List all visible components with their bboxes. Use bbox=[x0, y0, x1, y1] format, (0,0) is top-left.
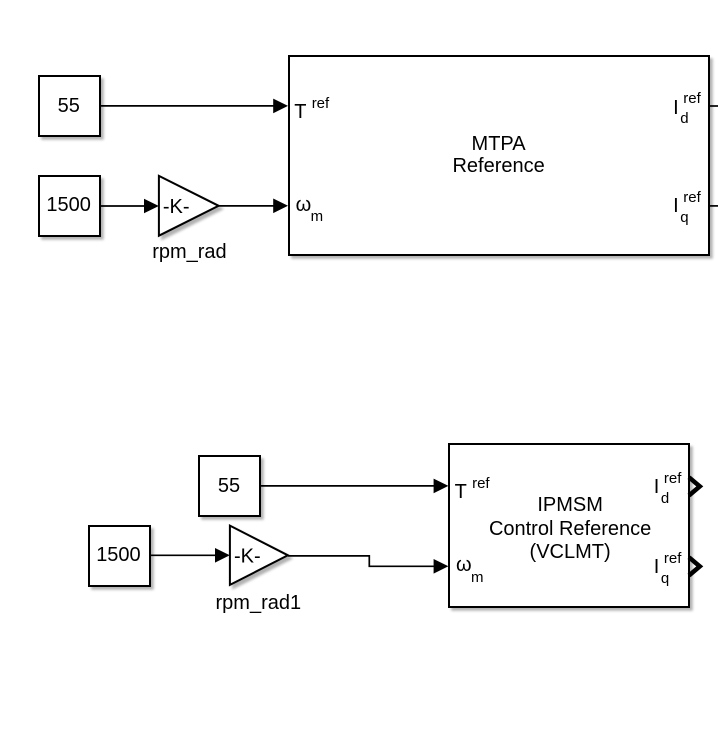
output port chevron Id ref bbox=[689, 477, 700, 495]
block name label MTPA Reference bbox=[399, 133, 599, 178]
gain label rpm_rad1 bbox=[216, 593, 302, 613]
wire 55 to MTPA T ref bbox=[101, 105, 275, 107]
port label superscript ref bbox=[472, 476, 490, 491]
value label 1500 bbox=[46, 195, 91, 215]
gain label rpm_rad bbox=[152, 242, 226, 262]
port label superscript ref bbox=[664, 471, 682, 486]
gain block rpm_rad1 (triangle) bbox=[230, 526, 288, 585]
subsystem block MTPA Reference bbox=[288, 55, 710, 256]
value label 1500 bbox=[96, 545, 141, 565]
gain block rpm_rad (triangle) bbox=[159, 176, 219, 236]
wire MTPA Iq ref output bbox=[710, 205, 718, 207]
wire MTPA Id ref output bbox=[710, 105, 718, 107]
port label subscript m bbox=[471, 570, 484, 585]
constant block Constant3 (1500, lower) bbox=[88, 525, 151, 587]
svg-text:-K-: -K- bbox=[163, 196, 190, 218]
wire 55 to IPMSM T ref bbox=[261, 485, 435, 487]
port label T bbox=[294, 102, 306, 122]
constant block Constant (55) bbox=[38, 75, 101, 137]
arrowhead at IPMSM T ref input bbox=[434, 479, 449, 494]
constant block Constant2 (55, lower) bbox=[198, 455, 261, 517]
arrowhead at gain rpm_rad input bbox=[144, 199, 159, 214]
port label superscript ref bbox=[664, 551, 682, 566]
arrowhead at MTPA omega input bbox=[273, 199, 288, 214]
block name label IPMSM Control Reference (VCLMT) bbox=[450, 494, 690, 564]
port label subscript d bbox=[680, 111, 688, 126]
svg-text:-K-: -K- bbox=[234, 546, 261, 568]
port label superscript ref bbox=[312, 96, 330, 111]
port label subscript q bbox=[661, 571, 669, 586]
port label I (Id ref) bbox=[654, 477, 660, 497]
port label I (Id ref) bbox=[673, 98, 679, 118]
arrowhead at MTPA T ref input bbox=[273, 99, 288, 114]
port label omega bbox=[456, 555, 472, 575]
port label superscript ref bbox=[683, 91, 701, 106]
value label 55 bbox=[58, 96, 80, 116]
port label I (Iq ref) bbox=[673, 196, 679, 216]
wire 1500 to gain rpm_rad bbox=[101, 205, 147, 207]
port label subscript q bbox=[680, 210, 688, 225]
constant block Constant1 (1500) bbox=[38, 175, 101, 237]
wire gain rpm_rad to MTPA omega input bbox=[219, 205, 275, 207]
port label superscript ref bbox=[683, 190, 701, 205]
subsystem block IPMSM Control Reference (VCLMT) bbox=[448, 443, 690, 608]
port label subscript d bbox=[661, 491, 669, 506]
wire 1500 to gain rpm_rad1 bbox=[151, 554, 217, 556]
arrowhead at IPMSM omega input bbox=[434, 559, 449, 574]
port label I (Iq ref) bbox=[654, 557, 660, 577]
wire gain rpm_rad1 to IPMSM omega input (with step) bbox=[288, 556, 435, 566]
port label subscript m bbox=[311, 209, 324, 224]
arrowhead at gain rpm_rad1 input bbox=[215, 548, 230, 563]
value label 55 bbox=[218, 476, 240, 496]
port label T bbox=[455, 482, 467, 502]
port label omega bbox=[296, 195, 312, 215]
output port chevron Iq ref bbox=[689, 557, 700, 575]
